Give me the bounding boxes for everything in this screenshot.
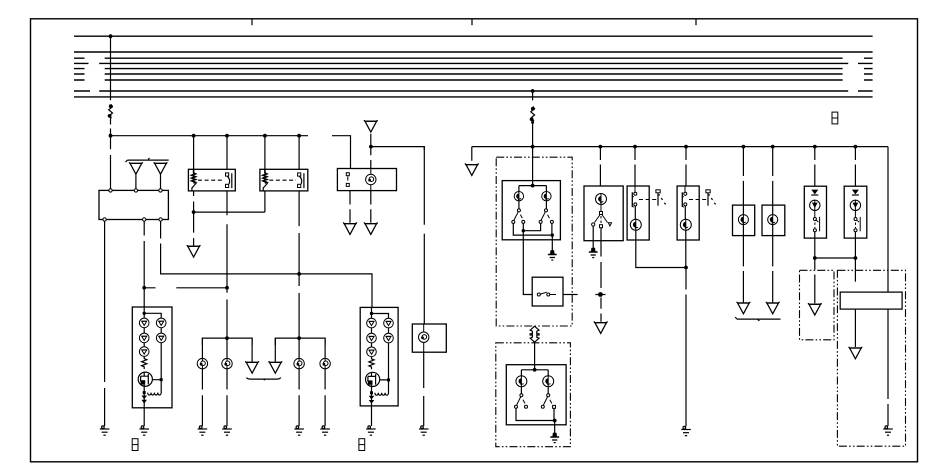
arrow A-U5 [766, 302, 779, 314]
switch U2 [632, 186, 637, 207]
led CL2 [156, 318, 166, 328]
wire bus line 4 [74, 62, 873, 64]
diode U7 [852, 190, 859, 195]
wire assembly top link [519, 186, 547, 192]
flasher inner box [506, 365, 566, 425]
wire right rail left drop [471, 147, 473, 161]
node relay1 switch lower [225, 286, 229, 290]
node rail relay1 coil [192, 134, 196, 138]
pin b3 [159, 218, 162, 221]
wire left feed vertical [110, 36, 112, 136]
wire U2 feed [634, 147, 636, 186]
wire bus line 9 [74, 96, 873, 98]
hazard switch inner box [502, 181, 560, 240]
led CL4 [156, 333, 166, 343]
lamp L4 [320, 358, 330, 368]
relay R2 [260, 169, 308, 191]
wire bus line 8 [74, 90, 873, 92]
wire CL exit [143, 386, 145, 426]
arrow A-U6 [808, 303, 821, 315]
arrow A-U7 [849, 347, 862, 359]
wire cluster R top link [372, 307, 389, 318]
lamp U1 [596, 193, 607, 205]
switch S1 [512, 209, 525, 224]
wire relay R2 switch bottom [298, 191, 300, 338]
combination lamp unit left [132, 307, 172, 408]
switch U3 [682, 186, 687, 207]
diode U6 [811, 190, 818, 195]
pin b1 [103, 218, 106, 221]
wire motor node to right drop [371, 147, 424, 150]
led CL1 [139, 318, 149, 328]
wire U3 out to ground [685, 240, 687, 427]
lamp U4 [738, 214, 748, 225]
marker connector tag top right [832, 112, 838, 124]
fuse F1 [109, 105, 113, 119]
wire U7 out [854, 238, 856, 282]
relay R2 actuation dashed [269, 179, 296, 181]
side marker unit U6 box [804, 186, 826, 238]
node rail U2 [633, 145, 637, 149]
node relay coils join [192, 210, 196, 214]
wire lamp S2 lead [545, 201, 547, 209]
node right rail feed [531, 145, 535, 149]
connector inline symbol [529, 326, 539, 342]
wire flasher top link [521, 370, 548, 376]
ground G-CL [139, 426, 149, 435]
node bus tap left [109, 34, 113, 38]
wire CR exit [371, 387, 373, 427]
switch S2 [539, 209, 553, 224]
pin t2 [134, 189, 137, 192]
side marker unit U7 box [844, 186, 867, 238]
relay R1 actuation dashed [198, 179, 224, 181]
switch U3 actuation dashed [689, 199, 708, 201]
switch U2 actuation dashed [639, 199, 658, 201]
switch F1 [515, 394, 528, 409]
wire U3 internal [684, 206, 687, 240]
wire CL right branch down [152, 343, 161, 380]
wire horn to ground [423, 352, 425, 426]
wire lamp F1 lead [520, 387, 522, 394]
wire relay R1 coil bottom [193, 191, 195, 212]
node rail relay2 switch [297, 134, 301, 138]
motor contact 1 [346, 173, 349, 176]
coil CR-choke [375, 380, 389, 395]
combination switch assembly box [496, 157, 572, 326]
lamp S2 [542, 191, 551, 201]
wire lamp L1 drop [201, 338, 203, 426]
wire U4 out [742, 236, 744, 303]
node lamp group L junction [225, 336, 229, 340]
wire J/B b3 down and right [161, 221, 372, 307]
wire bus line 7 [74, 79, 873, 81]
wire U2 out [636, 240, 686, 268]
relay R1 contact top [226, 173, 229, 176]
ground G-U1 (earth) [589, 248, 598, 258]
relay R1 [188, 169, 235, 191]
switch U6 [813, 211, 819, 232]
node motor feed [369, 145, 373, 149]
node b2 split [142, 286, 146, 290]
motor M1 [366, 169, 376, 191]
wire left rail [111, 136, 351, 169]
ground G-L2 [222, 426, 232, 435]
switch unit U2 box [627, 186, 649, 240]
led CR2 [384, 318, 394, 328]
arrow A3 down to motor node [364, 120, 377, 132]
lamp L1 [197, 358, 207, 368]
node CL-Q collector [160, 378, 163, 381]
node flasher out [553, 419, 557, 423]
wire U6-U7 join [815, 257, 856, 259]
ground G-L3 [294, 426, 304, 435]
wire U6 arrow lead [814, 258, 816, 303]
border tick 1 [251, 19, 253, 25]
node cluster L entry [143, 312, 146, 315]
ground G1 [100, 426, 110, 435]
transistor CR-Q [366, 372, 380, 386]
border tick 2 [471, 19, 473, 25]
wire right rail [472, 146, 888, 148]
wire arrow AL drop [251, 338, 253, 362]
relay R2 coil [263, 169, 267, 183]
node S link [522, 229, 525, 232]
led U6 [810, 200, 820, 211]
arrow A2 to junction block [154, 162, 167, 174]
wire b2 branch right [144, 287, 227, 289]
node cluster R entry [370, 312, 373, 315]
diode CR-D [369, 396, 375, 404]
wire U1 out down [600, 228, 602, 322]
ground G-L1 [198, 426, 208, 435]
lamp unit U4 box [733, 205, 755, 236]
wire assembly feed [532, 147, 534, 186]
fuse F2 [531, 107, 535, 123]
node bus tap right [531, 89, 535, 93]
horn unit box [412, 324, 446, 352]
led U7 [850, 200, 860, 211]
ground G-U3 [681, 426, 691, 435]
node rail-left T [109, 134, 113, 138]
node b3 rail relay2 [297, 272, 301, 276]
switch F2 [541, 394, 555, 409]
wire arrow A1 lead [135, 174, 137, 191]
lamp U2 [630, 219, 641, 231]
pin b2 [143, 218, 146, 221]
node lamp group R junction [297, 336, 301, 340]
wire relay R1 switch top [226, 136, 228, 170]
lamp L3 [294, 358, 304, 368]
motor contact 2 [346, 183, 349, 186]
wire S1 left contact down [513, 223, 552, 235]
led CR1 [367, 318, 377, 328]
arrow A-U4 [737, 302, 750, 314]
wire bus line 2 [74, 51, 873, 53]
wire right drop below label box [887, 309, 889, 426]
lamp U5 [768, 214, 778, 225]
ground G-S (earth) [548, 250, 557, 260]
node rail U4 [742, 145, 746, 149]
relay R2 contact top [298, 173, 301, 176]
washer motor box [337, 169, 396, 191]
switch U2 knob [656, 190, 666, 206]
washer switch box [532, 277, 563, 306]
arrow A-L [246, 361, 259, 373]
wire lamp group L bar [202, 338, 252, 345]
ground G-right [883, 426, 893, 435]
wire bus line 3 [74, 57, 873, 59]
wire U4 internal [742, 205, 744, 236]
connector tick U1 [595, 293, 605, 297]
label white box [840, 292, 902, 309]
coil CL-choke [148, 380, 162, 395]
shield under arrows [246, 378, 280, 380]
lamp assembly B dash-dot box [837, 270, 905, 446]
shield bar under U4 U5 arrows [735, 317, 780, 321]
wire J/B b2 down [143, 221, 145, 307]
wire relay R1 coil top [193, 136, 195, 170]
node flasher split [533, 368, 537, 372]
node assembly split [531, 184, 535, 188]
transistor CL-Q [138, 372, 152, 386]
wire flasher feed [534, 342, 536, 370]
ground arrow G-m2 [364, 222, 377, 234]
shield bar over junction block triangles [126, 158, 169, 162]
wire coils join horizontal [194, 211, 265, 213]
junction block J/B [99, 190, 168, 219]
wire flasher ground lead [554, 421, 556, 438]
wire S2 right contact down [551, 223, 553, 235]
relay R1 coil [192, 169, 196, 183]
lamp L2 [222, 358, 232, 368]
led CR3 [367, 333, 377, 343]
switch U1 SPDT [592, 205, 612, 228]
lamp F2 [543, 375, 554, 387]
ground G-horn [419, 426, 429, 435]
wire rail right corner drop [887, 147, 889, 293]
wire feed to junction block [110, 136, 112, 191]
wire CL mid [144, 328, 161, 347]
wire S to washer switch [523, 231, 532, 295]
ground arrow G-m1 [344, 222, 357, 234]
relay R1 contact bottom [226, 184, 229, 187]
wire U5 out [772, 236, 774, 303]
wire U7 feed [854, 147, 856, 187]
node rail U7 [854, 145, 858, 149]
arrow A-U1 [594, 321, 607, 333]
lamp assembly A dash-dot box [800, 270, 835, 340]
relay R1 contact bar [227, 173, 232, 188]
wire motor feed down [370, 147, 372, 169]
horn H1 [419, 324, 429, 352]
wire bus line 1 [74, 35, 873, 37]
wire arrow A3 lead [370, 134, 372, 147]
wire arrow AR drop [274, 338, 276, 362]
wire U6 out [814, 238, 816, 258]
led CR5 [367, 347, 377, 357]
turn hazard flasher assembly box [496, 343, 571, 447]
wire washer switch out [563, 294, 578, 296]
wire relay R1 switch bottom [226, 191, 228, 338]
lamp S1 [514, 191, 523, 201]
pin t1 [109, 189, 112, 192]
wire relay R2 coil top [264, 136, 266, 170]
node U2-U3 join [684, 266, 688, 270]
ground G-F (earth) [550, 433, 559, 443]
wire lamp L2 drop [226, 338, 228, 426]
node S out [551, 234, 554, 237]
ground G-CR [366, 426, 376, 435]
wire flasher bottom bar [516, 408, 555, 420]
node rail relay2 coil [263, 134, 267, 138]
wire lamp F2 lead [547, 387, 549, 394]
lamp U3 [680, 219, 691, 231]
wire bus line 5 [74, 68, 873, 70]
node rail U6 [813, 145, 817, 149]
led CL5 [139, 347, 149, 357]
ground arrow G-coils [187, 245, 200, 257]
wire lamp L3 drop [298, 338, 300, 426]
wire cluster L top link [144, 307, 161, 318]
wire U7 internal bottom [854, 232, 856, 238]
arrow A1 to junction block [130, 162, 143, 174]
motor contact dash [347, 177, 349, 184]
switch U7 [854, 211, 860, 232]
switch unit U3 box [677, 186, 699, 240]
marker connector tag right [359, 439, 365, 451]
resistor CR-R [369, 357, 374, 370]
node rail U3 [684, 145, 688, 149]
wire relay R2 coil bottom [264, 191, 266, 212]
wire U1 feed [599, 147, 601, 186]
wire bus line 6 [74, 73, 873, 75]
wire coil join to arrow [193, 212, 195, 246]
arrow A-R [269, 361, 282, 373]
wire motor out 2 [370, 191, 372, 223]
node CR-Q collector [387, 378, 390, 381]
border tick 3 [695, 19, 697, 25]
led CL3 [139, 333, 149, 343]
wire right feed vertical [532, 91, 534, 147]
relay R2 contact bar [299, 173, 304, 188]
ground arrow G-rail [465, 163, 478, 175]
wire U6 internal bottom [814, 232, 816, 238]
wire CR right branch down [380, 343, 389, 380]
indicator unit U1 box [584, 186, 623, 241]
node rail U5 [771, 145, 775, 149]
wire lamp group R bar [275, 338, 325, 345]
wire S1 right contact link [523, 223, 540, 230]
ground G-L4 [320, 426, 330, 435]
lamp unit U5 box [762, 205, 785, 236]
relay R2 contact bottom [298, 184, 301, 187]
node rail U1 [599, 145, 603, 149]
wire CR mid [372, 328, 389, 347]
wire U7 below label box [854, 309, 856, 347]
wire U5 feed [772, 147, 774, 206]
wire motor out 1 [349, 191, 351, 223]
wire S ground lead [551, 235, 553, 252]
wire U1 left contact to ground [592, 226, 594, 249]
marker connector tag left [132, 439, 138, 451]
switch U3 knob [706, 190, 716, 206]
wire U2 internal [634, 206, 637, 240]
wire U3 feed [685, 147, 687, 186]
wire U5 internal [772, 205, 774, 236]
wire J/B b1 to ground [104, 221, 106, 426]
washer switch contacts [537, 292, 556, 296]
led CR4 [384, 333, 394, 343]
diode CL-D [141, 396, 147, 404]
combination lamp unit right [360, 307, 398, 406]
lamp F1 [516, 375, 527, 387]
node U6 join [813, 256, 817, 260]
wire U4 feed [742, 147, 744, 206]
wire lamp L4 drop [324, 338, 326, 426]
wire arrow A2 lead [160, 174, 162, 191]
pin t3 [159, 189, 162, 192]
wire lamp S1 lead [518, 201, 520, 209]
node rail relay1 switch [225, 134, 229, 138]
wire horn feed vertical [423, 147, 425, 324]
resistor CL-R [142, 356, 147, 369]
wire U6 feed [814, 147, 816, 187]
wire relay R2 switch top [298, 136, 300, 170]
